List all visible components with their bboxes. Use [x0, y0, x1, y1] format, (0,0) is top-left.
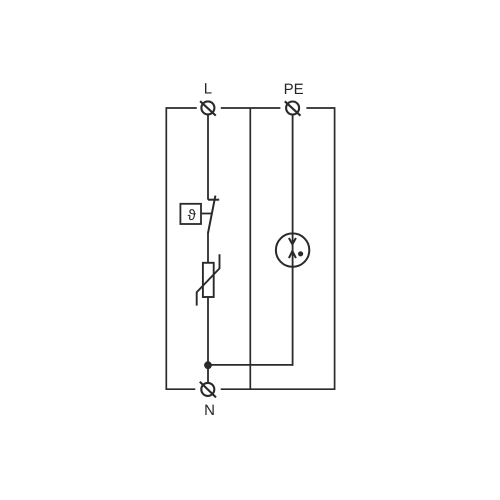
terminal PE	[285, 101, 301, 115]
varistor diagonal with bent ends	[197, 254, 220, 305]
wire: top segment between L and PE terminals	[221, 107, 281, 109]
thermal release box	[180, 204, 201, 224]
switch fixed contact tick	[208, 199, 219, 201]
spark gap (surge arrester) circle	[276, 233, 309, 266]
switch blade (thermal disconnect switch)	[208, 196, 216, 234]
svg-text:ϑ: ϑ	[188, 207, 197, 224]
terminal N	[200, 382, 216, 398]
gas-filled indicator dot	[298, 251, 303, 256]
wire: L terminal down to switch contact	[207, 115, 209, 200]
spark gap upper arrowhead (pointing down)	[289, 238, 296, 244]
mechanical link from thermal box to blade	[201, 213, 212, 215]
junction dot	[204, 361, 212, 369]
wire: middle vertical busbar	[249, 108, 251, 389]
varistor body	[203, 263, 214, 297]
wire: top-right segment, right edge and bottom-right segment (PE/N loop)	[221, 108, 335, 389]
svg-text:L: L	[204, 81, 212, 98]
wire: junction to spark-gap branch (horizontal + corner up)	[208, 364, 293, 366]
wire: junction to N terminal	[207, 365, 209, 383]
terminal L	[200, 101, 216, 115]
wire: top-left segment, left edge and bottom-left segment (L/N loop)	[166, 108, 197, 389]
wire: PE branch vertical through spark gap	[292, 115, 294, 366]
wire: varistor to junction	[207, 297, 209, 365]
spark gap lower arrowhead (pointing up)	[289, 251, 296, 258]
wire: blade to varistor	[207, 233, 209, 262]
svg-text:N: N	[204, 402, 215, 419]
svg-text:PE: PE	[284, 81, 304, 98]
